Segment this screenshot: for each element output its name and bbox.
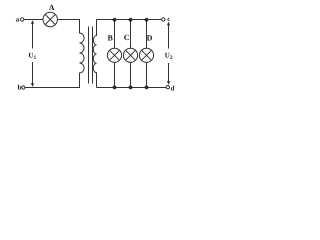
arrowhead U2 up: [167, 22, 170, 26]
bottom right rail: [97, 87, 167, 89]
transformer secondary winding L2: [93, 20, 96, 88]
svg-text:B: B: [108, 34, 114, 43]
junction node top D: [145, 18, 149, 22]
lamp B: [107, 48, 121, 62]
arrowhead U1 up: [31, 20, 34, 24]
voltage arrow U2 shaft: [168, 24, 170, 83]
arrowhead U2 down: [167, 81, 170, 85]
junction node bottom B: [113, 86, 117, 90]
junction node top C: [129, 18, 133, 22]
wire lamp D to bottom rail: [146, 62, 148, 87]
transformer core: [89, 27, 93, 84]
svg-text:D: D: [147, 33, 153, 42]
junction node top B: [113, 18, 117, 22]
terminal a: [21, 18, 24, 21]
svg-text:a: a: [16, 15, 20, 23]
arrowhead U1 down: [31, 83, 34, 87]
transformer primary winding L1: [80, 20, 85, 88]
terminal d: [166, 86, 169, 89]
svg-text:C: C: [124, 33, 130, 42]
junction node bottom C: [129, 86, 133, 90]
branch wire lamp B: [114, 20, 116, 49]
voltage arrow U1 shaft: [32, 23, 34, 85]
lamp D: [139, 48, 153, 62]
branch wire lamp C: [130, 20, 132, 49]
junction node bottom D: [145, 86, 149, 90]
wire lamp C to bottom rail: [130, 62, 132, 87]
lamp C: [123, 48, 137, 62]
wire a to lamp A: [24, 19, 43, 21]
wire lamp B to bottom rail: [114, 62, 116, 87]
branch wire lamp D: [146, 20, 148, 49]
svg-text:b: b: [18, 84, 22, 92]
svg-text:c: c: [167, 15, 170, 23]
top right rail: [97, 19, 162, 21]
terminal b: [22, 86, 25, 89]
lamp A: [43, 12, 57, 26]
svg-text:d: d: [171, 85, 175, 93]
wire lamp A to transformer primary: [57, 19, 80, 21]
terminal c: [162, 18, 165, 21]
svg-text:A: A: [49, 3, 55, 12]
wire b to transformer primary bottom: [25, 87, 80, 89]
